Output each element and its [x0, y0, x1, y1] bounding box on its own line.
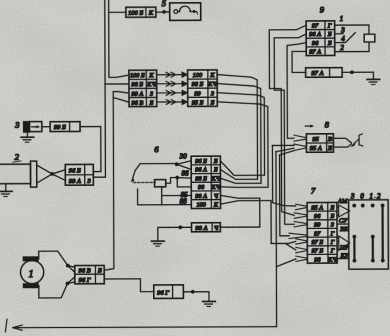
svg-text:86: 86	[182, 170, 190, 178]
svg-text:К: К	[148, 72, 154, 79]
svg-text:Б: Б	[97, 267, 102, 274]
connector box of motor 1 (96В-Б / 96Г)	[75, 265, 104, 283]
stray tick bottom left	[5, 319, 7, 332]
wire relay r5 down to 98А box	[220, 195, 260, 227]
wire pair r2 down to relay r3	[217, 83, 261, 183]
wire bundle: switch9 r2 down to connector7 r3	[274, 34, 307, 224]
svg-text:96: 96	[314, 213, 321, 220]
svg-text:98 Б: 98 Б	[195, 175, 207, 182]
svg-text:З: З	[331, 222, 334, 229]
svg-text:З: З	[150, 90, 153, 97]
svg-text:97 Б: 97 Б	[311, 239, 323, 246]
svg-text:95 А: 95 А	[311, 205, 323, 212]
door switch plunger	[359, 134, 363, 146]
contact bar position 2	[381, 205, 383, 260]
svg-text:99 А: 99 А	[69, 178, 81, 185]
svg-text:96 А: 96 А	[309, 31, 321, 38]
wire switch9 row4 to 97А box	[292, 51, 306, 72]
wires node to connector 2 rows	[52, 170, 65, 181]
wire bus line C (to motor 1)	[104, 92, 130, 271]
contact bar position 1	[372, 237, 374, 261]
node dot motor2	[50, 172, 54, 176]
wire ВК row3 to switch box	[337, 223, 349, 225]
wedges into connector 8	[294, 135, 307, 150]
contact dots top row	[352, 204, 356, 208]
wires relay 30 node to rows 1,2	[177, 161, 192, 170]
label box 99Б (sensor wire)	[50, 122, 80, 132]
node dot relay 30	[175, 162, 179, 166]
label box 97А (to ground)	[306, 68, 343, 78]
svg-text:96 В: 96 В	[131, 100, 143, 107]
svg-text:Б: Б	[327, 40, 332, 47]
svg-text:В: В	[328, 136, 332, 143]
direction mark near 8	[305, 125, 310, 127]
wedges into connector 7	[289, 204, 307, 261]
wire motor1 bottom to connector	[39, 283, 68, 298]
wires connector8 to door switch	[333, 138, 351, 147]
wire box to fuse	[156, 11, 170, 13]
connector pair left block (100Б/98Б/99А/96В)	[129, 70, 157, 107]
ground (97А)	[367, 79, 380, 84]
svg-text:Г: Г	[330, 239, 335, 246]
motor 2 (blower)	[0, 152, 37, 188]
svg-text:100 Б: 100 Б	[130, 72, 145, 79]
svg-text:97 А: 97 А	[311, 70, 323, 77]
switch 9 connector block (97Г/96АБ/96Б/97А)	[306, 21, 335, 56]
wire cone motor2 to node	[37, 165, 53, 183]
switch 8 connector block (95В / 95А-Е)	[306, 134, 333, 153]
wire coil to node and rows 3,4	[166, 178, 192, 187]
arrowhead bottom left	[13, 325, 23, 330]
door switch arm arrow	[350, 141, 355, 147]
svg-text:1: 1	[28, 269, 33, 280]
wire bundle down: conn8 r2 to connector7 r1	[272, 145, 295, 206]
wire branch A to pair-block row2	[105, 83, 129, 85]
switch position box	[349, 200, 389, 269]
wire bundle: switch9 r3 down to connector8 r1	[287, 43, 307, 139]
dashed link armature to coil	[133, 181, 155, 183]
wire bus line A (left vertical)	[93, 0, 106, 177]
svg-text:Ч: Ч	[214, 225, 219, 232]
svg-text:2: 2	[340, 44, 344, 52]
wire pair r1 down to relay r2	[217, 74, 257, 179]
wire motor1 row2 to 96Г box	[104, 279, 154, 292]
label box 96Г	[154, 285, 184, 299]
wire sensor3 to its label box	[42, 126, 50, 128]
svg-text:99 Б: 99 Б	[54, 124, 66, 131]
connector pair right block (100/98Б/99/95Б)	[188, 70, 218, 107]
wire pair r4 down to relay r4	[217, 102, 268, 188]
svg-text:КЧ: КЧ	[211, 184, 221, 191]
svg-text:АМ: АМ	[337, 198, 348, 205]
wire motor1 top to connector	[39, 251, 68, 266]
resistor of switch 9	[364, 34, 375, 42]
node dot relay coil top feed	[175, 176, 179, 180]
relay armature contact	[132, 164, 140, 180]
wire relay r6 to right bundle	[221, 201, 272, 244]
svg-text:100: 100	[193, 72, 203, 79]
svg-text:99: 99	[194, 90, 201, 97]
node dots at motor1 connector	[66, 264, 70, 268]
svg-text:Г: Г	[330, 230, 335, 237]
svg-text:97 А: 97 А	[309, 49, 321, 56]
svg-text:99: 99	[314, 222, 321, 229]
wire switch9 pin1 loop	[335, 25, 369, 52]
sensor 3	[14, 120, 42, 133]
mating arrows between pair blocks	[158, 72, 187, 104]
svg-text:98: 98	[314, 256, 321, 263]
ground (sensor 3)	[26, 132, 28, 136]
wire C tap to pair-block row4	[113, 97, 129, 102]
label box 98А/Ч	[192, 223, 221, 232]
svg-text:КЧ: КЧ	[146, 81, 156, 88]
svg-text:100: 100	[196, 201, 206, 208]
ignition switch connector 7 block	[307, 202, 337, 263]
svg-text:З: З	[211, 90, 214, 97]
relay 6 connector block	[191, 156, 221, 208]
svg-text:98 Б: 98 Б	[131, 81, 143, 88]
contact bar position 3	[353, 237, 355, 261]
svg-text:Б: Б	[213, 167, 218, 174]
wire relay top bar	[140, 163, 176, 165]
svg-text:Б: Б	[327, 31, 332, 38]
svg-text:100 Б: 100 Б	[128, 10, 143, 17]
svg-text:Г: Г	[327, 23, 332, 30]
wires connector8 r2 into bundle	[272, 145, 294, 155]
svg-text:96 Г: 96 Г	[157, 289, 169, 296]
svg-text:98 А: 98 А	[195, 225, 207, 232]
node: junction dot before fuse 5	[162, 10, 166, 14]
wire pair r3 down to relay r1	[217, 93, 264, 176]
svg-text:Б: Б	[210, 99, 215, 106]
svg-text:К: К	[148, 10, 154, 17]
motor 1 (heater fan)	[20, 256, 43, 288]
wedges into motor1 connector	[67, 266, 74, 284]
svg-text:Г: Г	[330, 248, 335, 255]
svg-text:96: 96	[312, 40, 319, 47]
svg-text:Б: Б	[149, 100, 154, 107]
label box 100Б/К (fuse feed)	[126, 7, 156, 17]
svg-text:96 А: 96 А	[195, 167, 207, 174]
svg-text:97: 97	[312, 23, 319, 30]
terminal wedge АМ	[339, 205, 350, 217]
svg-text:Ч: Ч	[214, 193, 219, 200]
wire 97А box to ground	[342, 72, 373, 79]
svg-text:Б: Б	[330, 213, 335, 220]
svg-text:98 Б: 98 Б	[192, 81, 204, 88]
svg-text:КЧ: КЧ	[207, 81, 217, 88]
relay coil	[155, 180, 166, 187]
wire bus line B (second vertical from top)	[109, 0, 129, 77]
wire bundle down: to connector7 r4 (97Г)	[280, 155, 290, 236]
svg-text:98: 98	[198, 184, 205, 191]
svg-text:96 В: 96 В	[79, 267, 91, 274]
wire bundle: switch9 r1 down to connector7 r2	[269, 25, 307, 215]
connector box of motor 2 (96Б / 99А-З)	[65, 164, 93, 185]
svg-text:30: 30	[179, 153, 188, 161]
wire branch B to fuse feed box	[109, 11, 126, 13]
ground (96Г)	[203, 301, 216, 306]
wire 98А box to ground	[158, 227, 192, 240]
svg-text:95 А: 95 А	[310, 145, 322, 152]
wire coil bottom to row 5	[162, 187, 192, 205]
svg-text:96 Б: 96 Б	[69, 167, 81, 174]
svg-text:96 Г: 96 Г	[79, 277, 91, 284]
svg-text:95: 95	[312, 136, 319, 143]
switch 9 contact stubs and arm	[335, 33, 356, 43]
wire connector7 r7 joining long wire	[276, 259, 296, 267]
wire 96Г box to ground	[183, 292, 209, 301]
svg-text:99 А: 99 А	[131, 90, 143, 97]
svg-text:К: К	[213, 201, 219, 208]
svg-text:К: К	[209, 72, 215, 79]
wire 99Б down to motor 2 connector	[80, 127, 101, 172]
svg-text:КЧ: КЧ	[327, 256, 337, 263]
svg-text:1: 1	[340, 15, 344, 23]
wire fixed contact to row 6	[138, 189, 192, 205]
svg-text:5: 5	[162, 0, 166, 8]
svg-text:Б: Б	[329, 204, 334, 211]
wire bundle down: long wire to bottom arrow	[13, 152, 277, 328]
fuse 5 (bimetallic breaker)	[170, 3, 201, 21]
ground (motor 2)	[5, 184, 7, 191]
svg-text:97 Б: 97 Б	[312, 248, 324, 255]
svg-text:ПР: ПР	[339, 244, 349, 251]
node dot 97А	[350, 70, 354, 74]
node dot 98А	[178, 225, 182, 229]
svg-text:95 Б: 95 Б	[192, 99, 204, 106]
svg-text:Е: Е	[327, 145, 332, 152]
svg-text:98 А: 98 А	[195, 193, 207, 200]
svg-text:ВК: ВК	[340, 226, 349, 233]
terminal wedge ПР	[339, 236, 350, 251]
svg-text:3: 3	[14, 120, 19, 130]
svg-text:Б: Б	[213, 158, 218, 165]
svg-text:97: 97	[314, 230, 321, 237]
wire branch to connector7 r5 r6	[271, 242, 296, 250]
ground (98А)	[152, 241, 165, 246]
svg-text:КЧ: КЧ	[211, 175, 221, 182]
wire КЗ row7 to switch box	[337, 258, 349, 260]
node dot after 96Г box	[191, 290, 195, 294]
svg-text:96 Б: 96 Б	[195, 158, 207, 165]
